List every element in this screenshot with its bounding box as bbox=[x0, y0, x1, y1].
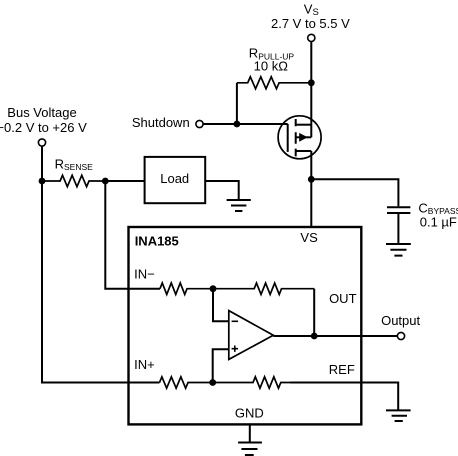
svg-text:10 kΩ: 10 kΩ bbox=[254, 59, 289, 74]
resistor R_SENSE bbox=[42, 175, 105, 186]
ground REF bbox=[386, 410, 411, 421]
junction bus / R sense / IN+ bbox=[39, 178, 46, 185]
svg-text:Load: Load bbox=[160, 171, 189, 186]
junction VS pin / C bypass bbox=[308, 176, 315, 183]
junction IN+ node bbox=[209, 379, 216, 386]
wire VS terminal to pull-up junction and transistor bbox=[310, 42, 312, 138]
junction VS / R pull-up bbox=[308, 79, 315, 86]
resistor R_PULL-UP bbox=[237, 77, 311, 89]
svg-text:INA185: INA185 bbox=[135, 233, 179, 248]
svg-text:Bus Voltage: Bus Voltage bbox=[7, 105, 76, 120]
svg-text:IN+: IN+ bbox=[134, 357, 155, 372]
wire IN+ node to op-amp non-inverting input bbox=[213, 349, 229, 382]
wire R pull-up to shutdown line bbox=[236, 83, 238, 124]
svg-text:REF: REF bbox=[329, 362, 355, 377]
capacitor C_BYPASS bbox=[387, 207, 410, 213]
IC INA185 box bbox=[129, 227, 362, 424]
terminal Shutdown bbox=[196, 120, 203, 127]
transistor Q1 PMOS bbox=[278, 116, 321, 159]
wire bus terminal to R sense bbox=[41, 146, 43, 181]
wire REF to ground bbox=[290, 383, 398, 411]
ground GND bbox=[238, 443, 262, 456]
resistor input IN- bbox=[160, 283, 213, 294]
wire transistor to VS pin junction bbox=[310, 151, 312, 179]
svg-text:Output: Output bbox=[381, 313, 420, 328]
terminal Output bbox=[397, 332, 404, 339]
wire op-amp output to Output terminal bbox=[273, 335, 397, 337]
svg-text:RSENSE: RSENSE bbox=[55, 156, 94, 172]
wire IN- node to op-amp inverting input bbox=[213, 289, 229, 322]
svg-text:Shutdown: Shutdown bbox=[132, 115, 190, 130]
resistor input IN+ bbox=[160, 377, 213, 388]
svg-text:OUT: OUT bbox=[329, 291, 357, 306]
terminal VS bbox=[308, 34, 315, 41]
wire Load to ground bbox=[205, 181, 239, 200]
svg-text:2.7 V to 5.5 V: 2.7 V to 5.5 V bbox=[271, 16, 350, 31]
svg-text:VS: VS bbox=[300, 230, 318, 245]
wire GND pin to ground bbox=[249, 424, 251, 442]
junction IN- node bbox=[210, 285, 217, 292]
op-amp U1 bbox=[229, 311, 273, 360]
ground C bypass bbox=[386, 244, 411, 256]
svg-text:−0.2 V to +26 V: −0.2 V to +26 V bbox=[0, 120, 87, 135]
load block bbox=[145, 157, 206, 203]
wire junction to C bypass bbox=[311, 179, 398, 206]
wire shutdown to transistor gate bbox=[203, 123, 288, 125]
wire VS pin into IC bbox=[310, 179, 312, 227]
svg-text:IN−: IN− bbox=[134, 267, 155, 282]
junction shutdown / R pull-up bbox=[234, 121, 241, 128]
wire R sense to Load bbox=[105, 180, 144, 182]
resistor REF bbox=[213, 377, 290, 388]
wire feedback to OUT junction bbox=[313, 289, 315, 336]
terminal Bus Voltage bbox=[38, 139, 45, 146]
junction OUT / feedback bbox=[311, 333, 318, 340]
wire C bypass to ground bbox=[397, 214, 399, 244]
svg-text:0.1 µF: 0.1 µF bbox=[420, 215, 457, 230]
resistor feedback bbox=[213, 283, 314, 294]
wire sense node to IN- bbox=[105, 181, 160, 289]
wire bus node to IN+ bbox=[42, 181, 160, 383]
junction R sense / Load / IN- bbox=[102, 178, 109, 185]
ground Load bbox=[227, 200, 251, 211]
svg-text:GND: GND bbox=[235, 406, 264, 421]
